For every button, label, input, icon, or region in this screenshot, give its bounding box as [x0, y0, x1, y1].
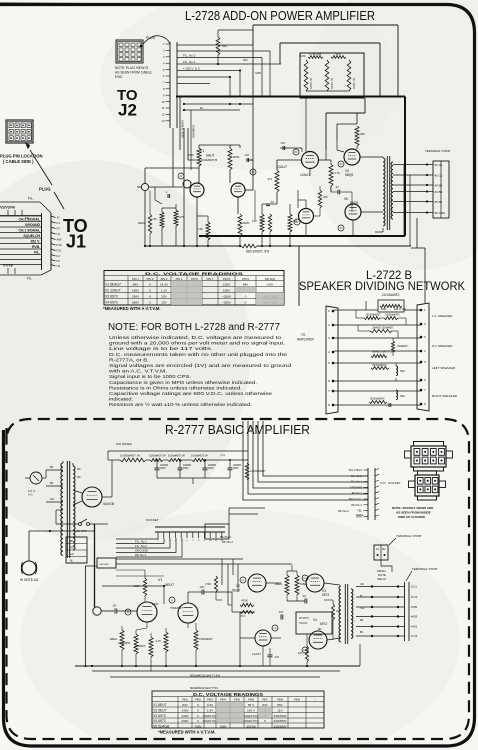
- svg-text:F11: F11: [57, 249, 62, 253]
- svg-text:FIL.: FIL.: [34, 251, 40, 255]
- svg-text:0: 0: [149, 283, 151, 287]
- svg-text:# B1: # B1: [411, 625, 418, 629]
- svg-text:84V: 84V: [133, 283, 139, 287]
- svg-text:V1: V1: [158, 578, 162, 582]
- svg-text:Resistance is in Ohms unle: Resistance is in Ohms unless otherwise i…: [109, 385, 242, 391]
- svg-text:W 6973: W 6973: [299, 616, 309, 620]
- svg-text:BK: BK: [70, 540, 74, 543]
- svg-text:Line voltage is to be 117: Line voltage is to be 117 volts.: [109, 346, 213, 352]
- svg-text:V3 6973: V3 6973: [153, 714, 166, 718]
- svg-text:END.: END.: [115, 75, 123, 79]
- svg-text:4.7K: 4.7K: [155, 639, 161, 643]
- svg-text:L.F. SPEAKER: L.F. SPEAKER: [432, 314, 453, 318]
- svg-text:300 80: 300 80: [246, 725, 256, 729]
- svg-text:CH.2 SIGNAL: CH.2 SIGNAL: [19, 218, 40, 222]
- svg-text:33K: 33K: [360, 132, 365, 136]
- svg-text:GRN: GRN: [255, 71, 261, 75]
- svg-text:RD: RD: [77, 468, 81, 471]
- svg-text:Capacitive voltage ratings: Capacitive voltage ratings are 600 V.D.C…: [109, 391, 272, 397]
- svg-text:#2 C2: #2 C2: [435, 173, 443, 177]
- svg-text:0: 0: [197, 719, 199, 723]
- svg-text:7MA: 7MA: [400, 394, 406, 398]
- svg-text:# B5: # B5: [411, 605, 418, 609]
- svg-text:RD: RD: [70, 547, 74, 550]
- svg-text:0: 0: [197, 708, 199, 712]
- svg-text:.5V: .5V: [126, 612, 130, 614]
- svg-text:J2: J2: [118, 101, 137, 120]
- svg-text:350V: 350V: [132, 294, 140, 298]
- svg-text:PIN 7: PIN 7: [207, 277, 214, 281]
- svg-text:CH.1 SIGNAL: CH.1 SIGNAL: [19, 229, 40, 233]
- svg-text:R-2777A, or B.: R-2777A, or B.: [109, 357, 149, 363]
- svg-text:.047: .047: [274, 655, 280, 659]
- svg-text:SPEAKER DIVIDING NETWORK: SPEAKER DIVIDING NETWORK: [299, 279, 465, 293]
- svg-text:330V: 330V: [181, 719, 189, 723]
- svg-text:30&#176;F: 30&#176;F: [202, 714, 217, 718]
- svg-text:474: 474: [240, 614, 245, 618]
- svg-text:with an A.C. V.T.V.M.: with an A.C. V.T.V.M.: [109, 369, 167, 375]
- svg-text:U1: U1: [57, 232, 61, 236]
- svg-text:BK: BK: [50, 466, 54, 469]
- svg-text:#3 B5: #3 B5: [435, 183, 443, 187]
- svg-text:86V: 86V: [277, 703, 283, 707]
- svg-text:330V: 330V: [181, 714, 189, 718]
- svg-text:SIL.VERB: SIL.VERB: [352, 78, 355, 89]
- svg-text:1.5K: 1.5K: [197, 227, 203, 231]
- svg-text:*: *: [314, 698, 315, 702]
- svg-text:PIN3: PIN3: [207, 698, 213, 702]
- svg-text:2&#937;/50&#937;: 2&#937;/50&#937;: [372, 326, 395, 330]
- svg-text:84V: 84V: [262, 703, 268, 707]
- svg-text:RIGHT SPEAKER: RIGHT SPEAKER: [432, 394, 458, 398]
- svg-text:NOTE: NOTE: [356, 513, 364, 517]
- svg-text:190V: 190V: [132, 289, 140, 293]
- svg-text:450V: 450V: [183, 467, 189, 470]
- svg-text:V4: V4: [313, 618, 317, 622]
- svg-text:#6 GND: #6 GND: [435, 211, 447, 215]
- svg-text:WH No.3: WH No.3: [220, 535, 231, 539]
- svg-text:282 V.: 282 V.: [31, 240, 41, 244]
- svg-text:0: 0: [197, 703, 199, 707]
- svg-text:GROUND: GROUND: [25, 223, 41, 227]
- svg-text:.047: .047: [244, 153, 250, 157]
- svg-text:560K: 560K: [243, 221, 250, 225]
- svg-text:ground with a 20,000 ohms: ground with a 20,000 ohms per volt meter…: [109, 341, 285, 347]
- svg-text:GR: GR: [360, 583, 364, 586]
- svg-text:50/50&#937;: 50/50&#937;: [366, 313, 381, 317]
- svg-text:PIN7: PIN7: [262, 698, 268, 702]
- svg-text:PIN9: PIN9: [294, 698, 300, 702]
- svg-text:A.C.: A.C.: [28, 493, 34, 497]
- svg-text:V3 6973: V3 6973: [105, 294, 118, 298]
- svg-text:PLUG PIN LOCATION: PLUG PIN LOCATION: [0, 154, 43, 159]
- svg-text:+ 282 V. D.C.: + 282 V. D.C.: [183, 67, 201, 71]
- svg-text:Resistors are ½ watt ±10 %: Resistors are ½ watt ±10 % unless otherw…: [109, 401, 252, 408]
- svg-text:FIL. No.2: FIL. No.2: [351, 474, 363, 478]
- svg-text:FIL.: FIL.: [28, 197, 34, 201]
- svg-text:30&#176;F: 30&#176;F: [202, 719, 217, 723]
- svg-text:RD: RD: [77, 476, 81, 479]
- svg-text:2V: 2V: [340, 227, 343, 230]
- svg-text:B+: B+: [200, 106, 204, 110]
- svg-text:100: 100: [298, 652, 303, 655]
- svg-text:GROUND: GROUND: [99, 564, 109, 566]
- svg-text:4.3V: 4.3V: [207, 703, 214, 707]
- svg-text:Signal input is to be 100: Signal input is to be 1000 CPS.: [109, 374, 191, 380]
- svg-text:BK: BK: [50, 482, 54, 485]
- svg-text:360V: 360V: [132, 300, 140, 304]
- svg-text:Capacitance is given in MF: Capacitance is given in MFD unless other…: [109, 380, 257, 386]
- svg-text:470K: 470K: [205, 582, 211, 586]
- svg-text:PIN 3: PIN 3: [161, 277, 168, 281]
- svg-text:PLUG: PLUG: [39, 187, 51, 192]
- svg-text:PIN 8: PIN 8: [223, 277, 230, 281]
- svg-text:LEFT SPEAKER: LEFT SPEAKER: [432, 366, 456, 370]
- svg-text:12AU7: 12AU7: [276, 165, 287, 169]
- svg-text:282 V. D.C.: 282 V. D.C.: [348, 497, 362, 501]
- svg-text:FIL. No.2: FIL. No.2: [135, 544, 147, 548]
- svg-text:50/50&#937;: 50/50&#937;: [370, 397, 385, 401]
- svg-text:6EU7: 6EU7: [165, 583, 174, 587]
- svg-text:# B3: # B3: [411, 615, 418, 619]
- svg-text:D.C. VOLTAGE READINGS: D.C. VOLTAGE READINGS: [193, 692, 263, 697]
- svg-text:YEL V BUS: YEL V BUS: [348, 468, 362, 472]
- svg-text:0: 0: [245, 294, 247, 298]
- svg-text:F5: F5: [57, 259, 61, 263]
- svg-text:450V: 450V: [208, 467, 214, 470]
- svg-text:FIL. No.1: FIL. No.1: [183, 60, 196, 64]
- svg-text:0: 0: [264, 719, 266, 723]
- svg-text:V2/V3/V6: V2/V3/V6: [0, 206, 15, 210]
- svg-text:V6: V6: [344, 197, 348, 201]
- svg-text:100&#937;W: 100&#937;W: [191, 454, 208, 458]
- svg-text:BK: BK: [360, 631, 364, 634]
- svg-text:( CABLE SIDE ): ( CABLE SIDE ): [3, 159, 34, 164]
- svg-text:100&#937;W: 100&#937;W: [168, 454, 185, 458]
- svg-text:1MEG: 1MEG: [275, 582, 282, 586]
- svg-text:TERMINAL STRIP: TERMINAL STRIP: [425, 149, 451, 153]
- svg-text:33&#937;: 33&#937;: [397, 344, 409, 348]
- svg-text:5,600&#937; W: 5,600&#937; W: [120, 454, 140, 458]
- svg-text:150V: 150V: [223, 283, 231, 287]
- svg-text:450V: 450V: [233, 467, 239, 470]
- svg-text:LPS: LPS: [179, 215, 184, 219]
- svg-text:J1: J1: [66, 232, 86, 252]
- svg-text:TERMINAL STRIP: TERMINAL STRIP: [412, 567, 438, 571]
- svg-text:indicated.: indicated.: [109, 397, 133, 403]
- svg-text:FIL. No.1: FIL. No.1: [351, 480, 363, 484]
- svg-text:RVB.: RVB.: [32, 245, 40, 249]
- svg-text:FIL. No.2: FIL. No.2: [183, 54, 196, 58]
- svg-text:V1 6EU7: V1 6EU7: [153, 703, 167, 707]
- svg-text:NOTE: SOCKET VIEWS ARE: NOTE: SOCKET VIEWS ARE: [392, 506, 433, 510]
- svg-text:SOCKET: SOCKET: [146, 518, 159, 522]
- svg-text:330/380V: 330/380V: [273, 714, 287, 718]
- svg-text:#5 B1: #5 B1: [435, 200, 443, 204]
- svg-text:330/380V: 330/380V: [273, 725, 287, 729]
- svg-text:V5 5U4GB: V5 5U4GB: [153, 725, 170, 729]
- svg-text:6AU7: 6AU7: [206, 154, 215, 158]
- svg-text:WH W/RED: WH W/RED: [116, 442, 133, 446]
- svg-text:NOTE: FOR BOTH L-2728 and: NOTE: FOR BOTH L-2728 and R-2777: [108, 322, 280, 333]
- svg-text:330/380V: 330/380V: [273, 719, 287, 723]
- svg-text:PIN 1: PIN 1: [132, 277, 139, 281]
- svg-text:U2: U2: [57, 264, 61, 268]
- svg-text:25/50&#937;: 25/50&#937;: [385, 313, 400, 317]
- svg-text:PIN 9: PIN 9: [242, 277, 249, 281]
- svg-text:1MEG: 1MEG: [109, 637, 117, 641]
- svg-text:AMPLIFIER: AMPLIFIER: [297, 338, 315, 342]
- svg-text:D.C. measurements taken wit: D.C. measurements taken with no other un…: [109, 352, 287, 358]
- svg-text:SIDE OF CHASSIS: SIDE OF CHASSIS: [398, 515, 425, 519]
- svg-text:RD No.2: RD No.2: [352, 491, 363, 495]
- svg-text:FIL. No.1: FIL. No.1: [135, 540, 147, 544]
- svg-text:450V: 450V: [160, 467, 166, 470]
- svg-text:470K: 470K: [241, 599, 248, 603]
- svg-text:5U4GB: 5U4GB: [103, 502, 115, 506]
- svg-text:1.1V: 1.1V: [161, 289, 168, 293]
- svg-text:H.F SPEAKER: H.F SPEAKER: [432, 344, 453, 348]
- svg-text:1500&#937;: 1500&#937;: [199, 637, 214, 641]
- svg-text:17.5K 4W: 17.5K 4W: [309, 52, 322, 56]
- svg-text:12AU7: 12AU7: [300, 173, 310, 177]
- svg-text:30&#176;F: 30&#176;F: [243, 714, 258, 718]
- svg-text:100&#937;W: 100&#937;W: [149, 454, 166, 458]
- svg-text:V2 6EU7: V2 6EU7: [153, 708, 167, 712]
- svg-text:6BQ5: 6BQ5: [345, 173, 353, 177]
- svg-text:PIN 4: PIN 4: [176, 277, 183, 281]
- svg-text:15V: 15V: [161, 300, 167, 304]
- svg-text:NOTE: PLUG VIEW IS: NOTE: PLUG VIEW IS: [115, 66, 149, 70]
- svg-text:PIN6: PIN6: [248, 698, 254, 702]
- svg-text:.047: .047: [199, 585, 205, 589]
- svg-text:GR: GR: [50, 498, 54, 501]
- svg-text:*MEASURED WITH A V.T.V.M.: *MEASURED WITH A V.T.V.M.: [103, 306, 161, 311]
- svg-text:GR: GR: [70, 553, 74, 556]
- svg-text:HI NOTE AG.: HI NOTE AG.: [20, 578, 39, 582]
- svg-text:8R: 8R: [318, 627, 322, 631]
- svg-text:1MEG: 1MEG: [138, 221, 145, 225]
- svg-text:PIN5: PIN5: [234, 698, 240, 702]
- svg-text:750&#937;: 750&#937;: [170, 606, 184, 610]
- svg-text:30&#176;F: 30&#176;F: [243, 719, 258, 723]
- svg-text:150K: 150K: [152, 602, 159, 606]
- svg-text:1.5K: 1.5K: [151, 217, 157, 221]
- svg-text:GROUND: GROUND: [350, 485, 362, 489]
- svg-text:# C6: # C6: [411, 634, 418, 638]
- svg-text:YEL: YEL: [357, 509, 363, 513]
- svg-text:V4 6973: V4 6973: [105, 300, 118, 304]
- svg-text:7MA: 7MA: [400, 369, 406, 373]
- svg-text:.047: .047: [280, 141, 286, 145]
- svg-text:22K: 22K: [323, 195, 328, 199]
- svg-text:V2: V2: [236, 584, 240, 588]
- svg-text:6EU7: 6EU7: [232, 589, 240, 593]
- svg-text:11V: 11V: [277, 708, 283, 712]
- svg-text:180&#937;: 180&#937;: [118, 641, 131, 645]
- svg-text:0: 0: [149, 294, 151, 298]
- svg-text:COMMON: COMMON: [192, 125, 196, 138]
- svg-text:24/16&#937;: 24/16&#937;: [382, 293, 400, 297]
- svg-text:SOCKET: SOCKET: [388, 481, 401, 485]
- svg-text:#1 C1: #1 C1: [435, 163, 443, 167]
- svg-text:V4 6973: V4 6973: [153, 719, 166, 723]
- svg-text:6BQ5: 6BQ5: [350, 201, 358, 205]
- svg-text:1.5V: 1.5V: [207, 708, 214, 712]
- svg-text:.047: .047: [278, 610, 284, 614]
- svg-text:474: 474: [267, 177, 272, 181]
- svg-text:12AX7: 12AX7: [252, 652, 261, 656]
- svg-text:AS SEEN FROM INSIDE: AS SEEN FROM INSIDE: [396, 511, 431, 515]
- svg-text:6.8K: 6.8K: [300, 54, 306, 58]
- svg-text:4.5V: 4.5V: [267, 283, 274, 287]
- svg-text:1V: 1V: [180, 175, 183, 178]
- svg-text:8&#937;&#177;5%: 8&#937;&#177;5%: [372, 350, 395, 354]
- svg-text:500&#8230;&#177;5%: 500&#8230;&#177;5%: [190, 686, 219, 690]
- svg-text:F4: F4: [57, 221, 61, 225]
- svg-text:PIN 2: PIN 2: [147, 277, 154, 281]
- svg-text:TA/CO: TA/CO: [299, 621, 308, 625]
- svg-text:V7/V8: V7/V8: [3, 264, 13, 268]
- svg-text:SIL.VERB: SIL.VERB: [330, 78, 333, 89]
- svg-text:R-2777 BASIC AMPLIFIER: R-2777 BASIC AMPLIFIER: [165, 423, 310, 437]
- svg-text:D.C. VOLTAGE READINGS: D.C. VOLTAGE READINGS: [145, 271, 244, 276]
- svg-text:V1 6EAU7: V1 6EAU7: [105, 283, 121, 287]
- svg-text:L-2728 ADD-ON POWER AMPLIFI: L-2728 ADD-ON POWER AMPLIFIER: [185, 9, 375, 23]
- svg-text:*MEASURED WITH A V.T.V.M.: *MEASURED WITH A V.T.V.M.: [158, 730, 216, 735]
- svg-text:560: 560: [243, 58, 248, 62]
- svg-text:6973: 6973: [320, 622, 327, 626]
- svg-text:4.7K: 4.7K: [334, 171, 340, 175]
- svg-text:6973: 6973: [322, 593, 329, 597]
- svg-text:Signal voltages are encircl: Signal voltages are encircled (1V) and a…: [109, 363, 291, 369]
- svg-text:560K: 560K: [233, 155, 240, 159]
- svg-text:.02: .02: [112, 604, 116, 608]
- svg-text:.02: .02: [302, 594, 306, 598]
- svg-text:30 A: 30 A: [335, 52, 341, 56]
- svg-text:0: 0: [149, 300, 151, 304]
- svg-text:0: 0: [245, 300, 247, 304]
- svg-text:560: 560: [222, 44, 227, 48]
- svg-text:YEL: YEL: [360, 607, 365, 610]
- svg-text:V2 12AU7: V2 12AU7: [105, 289, 121, 293]
- svg-text:PIN 6: PIN 6: [191, 277, 198, 281]
- svg-text:500&#8230;&#177;5%: 500&#8230;&#177;5%: [190, 674, 220, 678]
- svg-text:560 &#937; 5%: 560 &#937; 5%: [246, 250, 269, 254]
- svg-text:2V: 2V: [340, 163, 343, 166]
- svg-text:TO: TO: [301, 333, 306, 337]
- svg-text:PIN2: PIN2: [195, 698, 201, 702]
- svg-text:A66: A66: [57, 238, 62, 242]
- svg-text:PIN 9(A): PIN 9(A): [265, 277, 275, 281]
- svg-text:6MA: 6MA: [381, 307, 387, 311]
- svg-text:8V: 8V: [296, 221, 299, 224]
- svg-text:14V: 14V: [273, 628, 277, 630]
- svg-text:~350V: ~350V: [222, 294, 232, 298]
- svg-text:47&#937;: 47&#937;: [134, 644, 146, 648]
- svg-text:WH No.2: WH No.2: [351, 503, 362, 507]
- svg-text:~350V: ~350V: [222, 300, 232, 304]
- svg-text:J2: J2: [57, 216, 60, 220]
- svg-text:P10: P10: [57, 243, 62, 247]
- svg-text:14.5V: 14.5V: [160, 283, 169, 287]
- svg-text:PIN4: PIN4: [220, 698, 226, 702]
- svg-text:WH No.2: WH No.2: [222, 540, 233, 544]
- svg-text:SIL.VERB: SIL.VERB: [309, 78, 312, 89]
- svg-text:BR: BR: [360, 619, 364, 622]
- svg-text:774: 774: [220, 454, 225, 458]
- svg-text:145 V: 145 V: [247, 708, 256, 712]
- svg-text:100K: 100K: [134, 584, 140, 588]
- svg-text:8V: 8V: [295, 151, 298, 154]
- svg-text:0: 0: [149, 289, 151, 293]
- svg-text:F3: F3: [57, 227, 61, 231]
- svg-text:145V: 145V: [181, 708, 189, 712]
- svg-text:RELAY: RELAY: [378, 577, 387, 581]
- svg-text:780V: 780V: [219, 725, 227, 729]
- svg-text:84V: 84V: [243, 283, 249, 287]
- svg-text:470K: 470K: [187, 153, 194, 157]
- svg-text:FIL.: FIL.: [27, 277, 33, 281]
- svg-text:PIN8: PIN8: [277, 698, 283, 702]
- svg-text:AS SEEN FROM CABLE: AS SEEN FROM CABLE: [115, 71, 152, 75]
- svg-text:0: 0: [197, 714, 199, 718]
- svg-text:5V: 5V: [252, 171, 255, 174]
- svg-text:#4 B3: #4 B3: [435, 190, 443, 194]
- svg-text:.02: .02: [335, 185, 339, 189]
- svg-text:25/50&#937;: 25/50&#937;: [372, 363, 387, 367]
- svg-text:WH No.2: WH No.2: [338, 509, 349, 513]
- svg-text:(C1): (C1): [411, 585, 417, 589]
- svg-text:10K: 10K: [252, 219, 257, 223]
- svg-text:Unless otherwise indicated,: Unless otherwise indicated, D.C. voltage…: [109, 335, 281, 341]
- svg-text:.02: .02: [270, 200, 274, 204]
- svg-text:&#177;5%: &#177;5%: [394, 307, 407, 311]
- svg-text:TERMINAL STRIP: TERMINAL STRIP: [396, 534, 422, 538]
- svg-text:84V: 84V: [182, 703, 188, 707]
- svg-text:190V: 190V: [223, 289, 231, 293]
- svg-text:F2: F2: [57, 254, 61, 258]
- svg-text:RD No.2: RD No.2: [135, 553, 146, 557]
- svg-text:SQUELCH: SQUELCH: [23, 234, 40, 238]
- svg-text:GROUND: GROUND: [135, 549, 148, 553]
- svg-text:56 V: 56 V: [248, 703, 255, 707]
- svg-text:30V: 30V: [303, 578, 307, 580]
- svg-text:PIN1: PIN1: [182, 698, 188, 702]
- svg-text:15V: 15V: [161, 294, 167, 298]
- svg-text:780V: 780V: [194, 725, 202, 729]
- svg-text:# C2: # C2: [411, 595, 418, 599]
- svg-text:27K: 27K: [260, 219, 265, 223]
